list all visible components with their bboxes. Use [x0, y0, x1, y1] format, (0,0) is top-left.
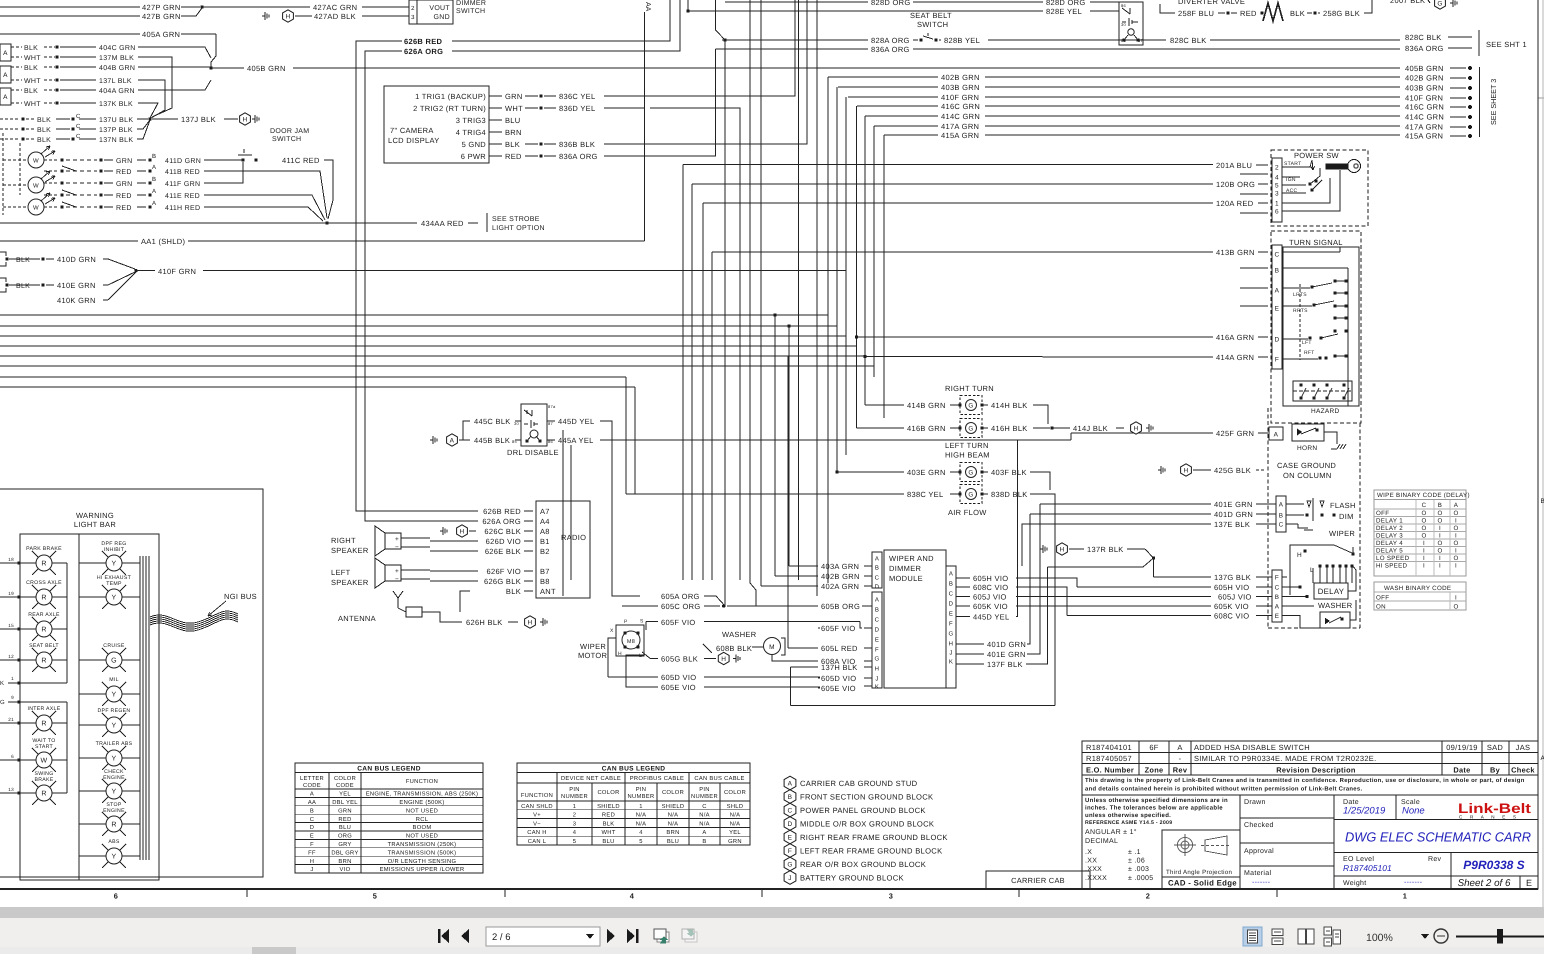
svg-text:BLU: BLU: [667, 839, 679, 845]
svg-text:−: −: [395, 576, 399, 583]
lamp G air flow: [960, 485, 982, 504]
svg-text:G: G: [968, 469, 973, 476]
svg-text:TEMP: TEMP: [106, 581, 122, 587]
svg-text:836C YEL: 836C YEL: [559, 92, 595, 101]
hex H 626C: [440, 530, 443, 532]
svg-text:DELAY 1: DELAY 1: [1376, 518, 1403, 525]
wire 411D GRN: [44, 159, 58, 161]
svg-text:1: 1: [639, 804, 643, 810]
svg-text:GRN: GRN: [116, 181, 132, 188]
svg-text:405B GRN: 405B GRN: [1405, 64, 1444, 73]
svg-text:411D GRN: 411D GRN: [165, 158, 201, 165]
svg-text:VIO: VIO: [340, 866, 351, 873]
svg-text:V+: V+: [533, 813, 541, 819]
svg-text:626G BLK: 626G BLK: [484, 577, 521, 586]
svg-text:B: B: [875, 607, 879, 614]
hex G 2007: [1435, 0, 1446, 9]
wire 427P GRN: [0, 6, 140, 8]
turn signal inner box: [1283, 247, 1359, 406]
svg-text:137N BLK: 137N BLK: [99, 137, 133, 144]
svg-text:A: A: [875, 556, 879, 563]
svg-text:BLK: BLK: [37, 127, 51, 134]
svg-text:137K BLK: 137K BLK: [99, 101, 133, 108]
module left strip 2: [872, 592, 882, 688]
svg-text:410D GRN: 410D GRN: [57, 255, 96, 264]
svg-text:4 TRIG4: 4 TRIG4: [456, 128, 486, 137]
svg-text:LIGHT BAR: LIGHT BAR: [74, 520, 116, 529]
wire 403E GRN: [835, 470, 838, 473]
svg-text:R: R: [41, 721, 46, 728]
svg-text:626A ORG: 626A ORG: [404, 47, 443, 56]
ngi bus cable: [150, 611, 238, 623]
svg-text:AIR FLOW: AIR FLOW: [948, 508, 987, 517]
svg-text:I: I: [1455, 595, 1457, 602]
svg-text:POWER PANEL GROUND BLOCK: POWER PANEL GROUND BLOCK: [800, 806, 926, 815]
svg-text:416C GRN: 416C GRN: [1405, 103, 1444, 112]
svg-text:I: I: [1423, 548, 1425, 555]
svg-text:B: B: [788, 794, 793, 801]
svg-text:F: F: [788, 848, 792, 855]
wire 405B GRN: [211, 67, 244, 69]
svg-text:COLOR: COLOR: [334, 775, 356, 782]
svg-text:TRANSMISSION (500K): TRANSMISSION (500K): [388, 849, 457, 856]
svg-text:J: J: [949, 650, 952, 657]
svg-text:I: I: [1455, 548, 1457, 555]
wire 626A ORG: [452, 0, 680, 51]
svg-text:E: E: [1275, 613, 1280, 620]
title block revision table: [1082, 741, 1538, 889]
svg-text:608C VIO: 608C VIO: [973, 583, 1008, 592]
svg-text:O/R LENGTH SENSING: O/R LENGTH SENSING: [388, 858, 457, 865]
module right strip: [946, 566, 956, 688]
svg-text:± .0005: ± .0005: [1128, 875, 1153, 882]
svg-text:411F GRN: 411F GRN: [165, 181, 200, 188]
wire camera WHT: [489, 107, 502, 109]
wire 137E BLK strip: [1022, 524, 1211, 566]
svg-text:DIMMER: DIMMER: [456, 0, 486, 7]
svg-text:B: B: [152, 153, 156, 160]
svg-text:BATTERY GROUND BLOCK: BATTERY GROUND BLOCK: [800, 874, 904, 883]
svg-text:137L BLK: 137L BLK: [99, 78, 132, 85]
toolbar zoom out: [1434, 929, 1448, 943]
toolbar nav last page: [627, 929, 639, 943]
svg-text:I: I: [1423, 563, 1425, 570]
svg-text:CARRIER CAB GROUND STUD: CARRIER CAB GROUND STUD: [800, 779, 918, 788]
wire 836A ORG right: [716, 48, 868, 50]
svg-text:417A GRN: 417A GRN: [1405, 123, 1443, 132]
svg-text:828C BLK: 828C BLK: [1170, 36, 1207, 45]
svg-text:ENGINE: ENGINE: [103, 775, 125, 781]
svg-text:CAD - Solid Edge: CAD - Solid Edge: [1168, 879, 1237, 888]
svg-text:B: B: [875, 565, 879, 572]
lamp G left turn: [960, 419, 982, 438]
svg-text:DEVICE NET CABLE: DEVICE NET CABLE: [561, 775, 621, 782]
svg-text:DELAY 3: DELAY 3: [1376, 533, 1403, 540]
svg-text:AA: AA: [308, 800, 316, 806]
svg-text:P9R0338 S: P9R0338 S: [1463, 858, 1524, 872]
svg-text:NUMBER: NUMBER: [628, 794, 655, 800]
svg-text:LEFT: LEFT: [331, 568, 351, 577]
svg-text:87: 87: [548, 421, 554, 426]
svg-text:BLK: BLK: [24, 45, 38, 52]
svg-text:AA: AA: [644, 2, 651, 12]
svg-text:SEE SHT 1: SEE SHT 1: [1486, 40, 1527, 49]
svg-text:836A ORG: 836A ORG: [871, 45, 910, 54]
svg-text:I: I: [1455, 518, 1457, 525]
svg-text:LIGHT OPTION: LIGHT OPTION: [492, 225, 545, 232]
svg-text:C: C: [1279, 522, 1284, 529]
toolbar nav first page: [438, 929, 449, 943]
svg-text:425F GRN: 425F GRN: [1216, 429, 1254, 438]
svg-text:A: A: [152, 188, 156, 195]
svg-text:O: O: [1453, 604, 1458, 611]
washer motor: [764, 638, 781, 655]
svg-text:417A GRN: 417A GRN: [941, 122, 979, 131]
svg-text:608C VIO: 608C VIO: [1214, 612, 1249, 621]
svg-text:C R A N E S: C R A N E S: [1459, 814, 1519, 819]
svg-text:G: G: [787, 861, 792, 868]
lamp DPF REGEN: [106, 717, 122, 733]
svg-text:FUNCTION: FUNCTION: [521, 792, 553, 799]
svg-text:100%: 100%: [1366, 932, 1393, 944]
bus 387 to 838C elbow: [634, 387, 636, 494]
connector A2: [0, 66, 11, 83]
box 7in camera lcd display: [384, 86, 489, 163]
svg-text:3: 3: [889, 892, 893, 901]
wire 137G BLK: [1154, 576, 1212, 578]
hex H 626H: [525, 616, 536, 628]
svg-text:RFT: RFT: [1304, 350, 1315, 356]
svg-text:4: 4: [639, 830, 643, 836]
svg-text:2: 2: [1275, 165, 1279, 172]
wire 416C GRN: [857, 105, 938, 107]
wire power sw pins: [1240, 173, 1268, 175]
svg-text:K: K: [0, 680, 4, 687]
svg-text:CAN BUS LEGEND: CAN BUS LEGEND: [357, 766, 421, 773]
svg-text:A: A: [152, 200, 156, 207]
bus 377 to 838C elbow: [625, 377, 627, 494]
svg-text:C: C: [1275, 252, 1280, 259]
svg-text:605C ORG: 605C ORG: [661, 602, 701, 611]
svg-text:COLOR: COLOR: [597, 789, 619, 796]
svg-text:4: 4: [1275, 175, 1279, 182]
svg-text:427AD BLK: 427AD BLK: [314, 12, 356, 21]
wire camera BLK: [489, 143, 502, 145]
svg-text:.XX: .XX: [1085, 858, 1097, 865]
box drl disable: [521, 404, 547, 446]
svg-text:B: B: [152, 176, 156, 183]
lamp DPF REG: [106, 555, 122, 571]
svg-text:137M BLK: 137M BLK: [99, 55, 134, 62]
flash dim contacts: [1286, 503, 1304, 505]
svg-text:1: 1: [1275, 201, 1279, 208]
svg-text:± .003: ± .003: [1128, 866, 1149, 873]
svg-text:C: C: [875, 617, 880, 624]
svg-text:N/A: N/A: [730, 812, 741, 819]
wire 414B GRN: [865, 404, 904, 406]
svg-text:402B GRN: 402B GRN: [1405, 74, 1444, 83]
toolbar background: [0, 907, 1544, 918]
svg-text:445C BLK: 445C BLK: [474, 417, 511, 426]
svg-text:5: 5: [373, 892, 377, 901]
connector 410D: [0, 252, 6, 256]
svg-text:828D ORG: 828D ORG: [871, 0, 911, 7]
svg-text:F: F: [1275, 575, 1279, 582]
svg-text:5 GND: 5 GND: [462, 140, 487, 149]
svg-text:E: E: [1526, 878, 1532, 888]
svg-text:-: -: [1179, 754, 1182, 763]
wire 838D BLK: [982, 493, 988, 495]
svg-text:405A GRN: 405A GRN: [142, 30, 180, 39]
wire 427B GRN: [0, 15, 140, 17]
svg-text:Y: Y: [112, 595, 117, 602]
wire 416H BLK: [982, 427, 988, 429]
wire 417A GRN: [874, 125, 938, 127]
svg-text:START: START: [1284, 161, 1301, 167]
svg-text:403F BLK: 403F BLK: [991, 468, 1027, 477]
svg-text:O: O: [1437, 518, 1442, 525]
svg-text:M: M: [769, 644, 775, 651]
svg-text:DBL YEL: DBL YEL: [332, 800, 358, 806]
svg-text:405B GRN: 405B GRN: [247, 64, 286, 73]
svg-text:H: H: [310, 859, 315, 865]
toolbar nav next: [607, 929, 615, 943]
svg-text:SEAT BELT: SEAT BELT: [910, 11, 952, 20]
svg-text:POWER SW: POWER SW: [1294, 151, 1340, 160]
svg-text:605E VIO: 605E VIO: [821, 684, 856, 693]
wire 605G BLK: [642, 652, 658, 658]
svg-text:Weight: Weight: [1343, 879, 1366, 887]
svg-text:G: G: [968, 491, 973, 498]
svg-text:258F BLU: 258F BLU: [1178, 9, 1214, 18]
svg-text:137P BLK: 137P BLK: [99, 127, 133, 134]
svg-text:GRY: GRY: [338, 841, 351, 848]
svg-text:411E RED: 411E RED: [165, 193, 200, 200]
wire 137F BLK: [956, 663, 984, 665]
toolbar view book: [1298, 929, 1314, 944]
svg-text:CAN SHLD: CAN SHLD: [521, 803, 553, 810]
svg-text:LCD DISPLAY: LCD DISPLAY: [388, 136, 440, 145]
svg-text:1: 1: [573, 804, 577, 810]
svg-text:SEE STROBE: SEE STROBE: [492, 216, 540, 223]
svg-text:BLK: BLK: [505, 140, 520, 149]
svg-text:TRAILER ABS: TRAILER ABS: [96, 741, 133, 747]
svg-text:A: A: [949, 571, 953, 578]
svg-text:425G BLK: 425G BLK: [1214, 466, 1251, 475]
svg-text:PIN: PIN: [636, 787, 647, 793]
svg-text:LETTER: LETTER: [300, 776, 324, 782]
svg-text:120A RED: 120A RED: [1216, 199, 1254, 208]
svg-text:BLK: BLK: [16, 257, 30, 264]
svg-text:828C BLK: 828C BLK: [1405, 33, 1442, 42]
hex A 445B: [447, 434, 458, 446]
svg-text:N/A: N/A: [730, 820, 741, 827]
svg-text:626D VIO: 626D VIO: [486, 537, 521, 546]
svg-text:137H BLK: 137H BLK: [821, 663, 858, 672]
lamp SEAT BELT: [36, 652, 52, 668]
svg-text:6: 6: [114, 892, 118, 901]
svg-text:LEFT REAR FRAME GROUND BLOCK: LEFT REAR FRAME GROUND BLOCK: [800, 847, 942, 856]
svg-text:410F GRN: 410F GRN: [1405, 94, 1443, 103]
svg-text:H: H: [1297, 552, 1302, 559]
svg-text:H: H: [1060, 546, 1065, 553]
svg-text:WASH BINARY CODE: WASH BINARY CODE: [1384, 585, 1451, 592]
svg-text:G: G: [1437, 0, 1442, 7]
svg-text:3: 3: [411, 14, 415, 21]
svg-text:Check: Check: [1511, 766, 1535, 775]
svg-text:836B BLK: 836B BLK: [559, 140, 595, 149]
dashed column steering: [1267, 408, 1269, 628]
svg-text:INHIBIT: INHIBIT: [104, 547, 125, 553]
bus vertical 605L feed: [787, 356, 789, 648]
svg-text:B: B: [949, 581, 953, 588]
svg-text:Rev: Rev: [1173, 766, 1188, 775]
svg-text:N/A: N/A: [699, 820, 710, 827]
wire 626H BLK: [422, 612, 462, 622]
svg-text:836A ORG: 836A ORG: [559, 152, 598, 161]
svg-text:BRN: BRN: [666, 830, 679, 836]
wire 415A GRN: [884, 134, 938, 136]
horn switch: [1292, 424, 1324, 441]
svg-text:A: A: [310, 792, 314, 798]
svg-text:A: A: [1275, 604, 1280, 611]
svg-text:Y: Y: [112, 692, 117, 699]
svg-text:ADDED HSA DISABLE SWITCH: ADDED HSA DISABLE SWITCH: [1194, 743, 1310, 752]
svg-text:E: E: [949, 611, 953, 618]
svg-text:S: S: [640, 619, 644, 625]
svg-text:J: J: [310, 867, 313, 873]
svg-text:DELAY 5: DELAY 5: [1376, 548, 1403, 555]
svg-text:RIGHT: RIGHT: [331, 536, 356, 545]
svg-text:WIPE BINARY CODE (DELAY): WIPE BINARY CODE (DELAY): [1377, 492, 1470, 499]
svg-text:ON COLUMN: ON COLUMN: [1283, 471, 1332, 480]
svg-text:REAR AXLE: REAR AXLE: [28, 612, 60, 618]
svg-text:JAS: JAS: [1516, 743, 1531, 752]
svg-text:HIGH BEAM: HIGH BEAM: [945, 451, 990, 460]
svg-text:BLU: BLU: [602, 839, 614, 845]
svg-text:445D YEL: 445D YEL: [973, 613, 1009, 622]
svg-text:EMISSIONS UPPER /LOWER: EMISSIONS UPPER /LOWER: [380, 866, 465, 873]
wire 410D GRN: [9, 258, 40, 260]
svg-text:LO SPEED: LO SPEED: [1376, 555, 1410, 562]
svg-text:BLK: BLK: [24, 65, 38, 72]
lamp SWING: [36, 785, 52, 801]
svg-text:258G BLK: 258G BLK: [1323, 9, 1360, 18]
node 410F junction: [134, 269, 137, 272]
svg-text:404B GRN: 404B GRN: [99, 65, 135, 72]
box turn signal: [1271, 231, 1361, 423]
svg-text:K: K: [949, 659, 953, 666]
node 405B junction: [209, 66, 212, 69]
svg-text:GND: GND: [434, 14, 450, 21]
wire 608C VIO strip: [1067, 615, 1211, 617]
svg-text:TRANSMISSION (250K): TRANSMISSION (250K): [388, 841, 457, 848]
svg-text:REAR O/R BOX GROUND BLOCK: REAR O/R BOX GROUND BLOCK: [800, 860, 926, 869]
svg-text:D: D: [949, 601, 954, 608]
svg-text:415A GRN: 415A GRN: [941, 131, 979, 140]
svg-text:A: A: [702, 830, 706, 836]
svg-text:402B GRN: 402B GRN: [941, 73, 980, 82]
wire 403B GRN: [838, 86, 938, 88]
hex H 137R: [1040, 548, 1043, 550]
svg-text:416H BLK: 416H BLK: [991, 424, 1028, 433]
svg-text:BLU: BLU: [339, 825, 351, 831]
svg-text:403A GRN: 403A GRN: [821, 562, 859, 571]
connector A3: [0, 88, 11, 105]
svg-text:605K VIO: 605K VIO: [1214, 602, 1249, 611]
svg-text:-------: -------: [1252, 879, 1271, 886]
svg-text:H: H: [460, 528, 465, 535]
svg-text:C: C: [702, 803, 707, 810]
svg-text:Material: Material: [1244, 869, 1271, 877]
svg-text:Revision Description: Revision Description: [1276, 766, 1356, 775]
svg-text:inches. The tolerances below: inches. The tolerances below are applica…: [1085, 805, 1223, 812]
svg-text:E: E: [310, 834, 314, 840]
svg-text:RED: RED: [602, 813, 615, 819]
svg-text:NOT USED: NOT USED: [406, 807, 438, 814]
wire 605F VIO: [646, 621, 658, 623]
connector ABC flash: [1276, 496, 1286, 532]
svg-text:CODE: CODE: [336, 782, 354, 789]
svg-text:CROSS AXLE: CROSS AXLE: [26, 580, 62, 586]
svg-text:SHIELD: SHIELD: [597, 803, 620, 810]
svg-text:BRAKE: BRAKE: [34, 777, 53, 783]
svg-text:828D ORG: 828D ORG: [1046, 0, 1086, 7]
svg-text:A7: A7: [540, 507, 550, 516]
svg-text:AA1 (SHLD): AA1 (SHLD): [141, 237, 185, 246]
svg-text:By: By: [1490, 766, 1501, 775]
hex C legend: [784, 803, 796, 817]
hex J legend: [784, 871, 796, 885]
svg-text:C: C: [1422, 502, 1427, 509]
svg-text:RCL: RCL: [416, 816, 429, 823]
lamp TRAILER ABS: [106, 750, 122, 766]
svg-text:4: 4: [630, 892, 635, 901]
svg-text:LRTS: LRTS: [1293, 292, 1307, 298]
svg-text:137E BLK: 137E BLK: [1214, 520, 1250, 529]
svg-text:C: C: [310, 816, 315, 823]
wire 445D YEL mod: [956, 616, 970, 618]
svg-text:BLK: BLK: [603, 821, 615, 827]
svg-text:414B GRN: 414B GRN: [907, 401, 946, 410]
wire 828C BLK: [1143, 39, 1166, 41]
wire camera BLU: [489, 119, 502, 121]
hex H 137J: [240, 113, 251, 125]
svg-text:D: D: [875, 584, 880, 591]
wire 427AD BLK: [295, 15, 312, 17]
ground horn: [1331, 448, 1337, 450]
svg-text:404A GRN: 404A GRN: [99, 88, 135, 95]
wire 605B ORG: [727, 605, 818, 607]
svg-text:MIL: MIL: [109, 677, 119, 683]
svg-text:21: 21: [8, 717, 14, 722]
svg-text:605D VIO: 605D VIO: [661, 673, 696, 682]
svg-text:410K GRN: 410K GRN: [57, 296, 96, 305]
svg-text:403B GRN: 403B GRN: [1405, 84, 1444, 93]
svg-text:RED: RED: [505, 152, 522, 161]
svg-text:NGI BUS: NGI BUS: [224, 592, 257, 601]
ngi bus verticals: [139, 556, 141, 860]
svg-text:DELAY 4: DELAY 4: [1376, 540, 1403, 547]
svg-text:RED: RED: [116, 205, 132, 212]
connector 410E: [0, 278, 6, 282]
wire 137M BLK: [11, 56, 22, 58]
wire 137J BLK: [152, 118, 178, 120]
wire 137U BLK: [0, 118, 20, 120]
svg-text:A: A: [1177, 743, 1182, 752]
svg-text:W: W: [33, 158, 39, 165]
svg-text:828B YEL: 828B YEL: [944, 36, 980, 45]
